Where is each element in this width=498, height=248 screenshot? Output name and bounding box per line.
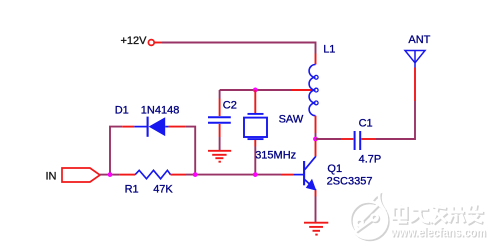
transistor Q1 base pin (red) [281,174,293,176]
inductor L1 bottom pin (red) [315,116,317,133]
watermark logo circle [351,195,388,240]
wire emitter to ground [315,197,317,223]
resistor R1 zigzag [135,170,170,179]
svg-text:2SC3357: 2SC3357 [327,176,373,188]
svg-text:4.7P: 4.7P [359,154,382,166]
wire IN port to node A [100,174,110,176]
capacitor C2 plates [208,117,231,123]
svg-text:IN: IN [46,171,57,183]
svg-text:www.elecfans.com: www.elecfans.com [390,224,486,239]
wire diode loop right vertical [185,127,195,175]
node SAW-top junction [253,88,258,93]
wire L1 bottom to node B [315,133,317,139]
transistor Q1 collector pin (red) [315,141,317,156]
inductor L1 coil [309,65,318,116]
wire diode loop left vertical [110,127,122,175]
capacitor C1 plates [355,131,361,150]
diode D1 symbol [134,117,168,137]
wire C2 to ground [219,137,221,150]
svg-text:C1: C1 [359,118,373,130]
wire node A to R1 [110,174,120,176]
capacitor C1 right pin (red) [361,138,376,140]
capacitor C2 bottom pin (red) [219,124,221,137]
wire tap rail C2 corner to L1 [220,89,292,91]
svg-text:SAW: SAW [279,114,304,126]
svg-text:R1: R1 [125,183,139,195]
SAW resonator top pin (red) [254,90,256,113]
diode D1 left pin (red) [122,126,134,128]
wire C1 to antenna riser [376,101,415,139]
wire SAW bottom to base rail [254,147,256,175]
svg-text:+12V: +12V [121,35,148,47]
node A junction (IN/R1/D1) [108,172,113,177]
power terminal circle [148,40,154,46]
svg-text:L1: L1 [323,43,335,55]
inductor L1 top pin (red) [315,54,317,65]
svg-text:ANT: ANT [408,34,430,46]
transistor Q1 symbol [293,156,316,190]
port IN shape [62,168,100,182]
resistor R1 right pin (red) [171,174,187,176]
wire base rail R1 to Q1 [186,174,281,176]
capacitor C2 top corner wire [219,90,221,99]
node junction R1 right / D1 [193,172,198,177]
svg-text:315MHz: 315MHz [255,149,296,161]
resistor R1 left pin (red) [120,174,136,176]
node B junction (L1/C1/collector) [313,137,318,142]
wire node B to C1 [316,138,342,140]
power terminal pin (red) [154,42,162,44]
svg-text:C2: C2 [223,100,237,112]
SAW resonator bottom pin (red) [254,140,256,147]
svg-text:D1: D1 [115,104,129,116]
L1 tap pin (red) [292,89,315,91]
antenna ANT symbol [405,51,425,68]
capacitor C2 top pin (red) [219,99,221,117]
ground below Q1 emitter [304,223,328,235]
SAW resonator symbol [244,114,267,139]
wire +12V rail to L1 top [162,43,316,54]
node junction SAW bottom [253,172,258,177]
antenna pin (red) [414,68,416,102]
transistor Q1 emitter pin (red) [315,190,317,196]
svg-text:47K: 47K [153,183,173,195]
watermark chinese text 电子发烧友 [394,205,484,224]
diode D1 right pin (red) [169,126,186,128]
svg-text:1N4148: 1N4148 [141,104,180,116]
capacitor C1 left pin (red) [341,138,353,140]
svg-text:Q1: Q1 [327,163,342,175]
ground below C2 [208,151,231,162]
